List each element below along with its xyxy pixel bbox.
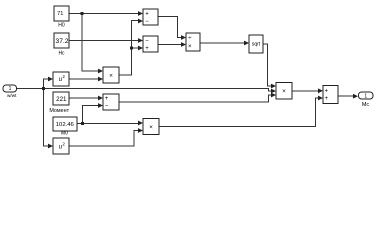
svg-text:×: × <box>188 43 192 50</box>
svg-text:1: 1 <box>9 86 12 92</box>
svg-text:u: u <box>59 77 62 83</box>
svg-text:H0: H0 <box>58 23 65 29</box>
svg-text:+: + <box>325 89 329 95</box>
svg-text:+: + <box>145 46 149 52</box>
svg-text:+: + <box>105 96 109 102</box>
svg-text:+: + <box>325 96 329 102</box>
svg-text:×: × <box>149 124 153 131</box>
svg-text:w/wt: w/wt <box>7 93 17 98</box>
svg-text:Mc: Mc <box>362 102 370 108</box>
svg-text:221: 221 <box>56 96 67 103</box>
svg-text:37.2: 37.2 <box>55 38 68 45</box>
svg-text:71: 71 <box>57 11 63 17</box>
svg-text:Hc: Hc <box>58 50 65 56</box>
svg-text:1: 1 <box>364 93 367 99</box>
svg-text:÷: ÷ <box>188 35 192 42</box>
svg-text:Момент: Момент <box>49 108 69 114</box>
svg-text:sqrt: sqrt <box>252 41 261 47</box>
svg-text:−: − <box>145 39 149 45</box>
svg-text:−: − <box>105 104 109 110</box>
svg-text:u: u <box>59 144 62 150</box>
svg-text:+: + <box>145 12 149 18</box>
svg-text:×: × <box>109 72 113 79</box>
svg-text:M0: M0 <box>61 131 68 137</box>
svg-text:×: × <box>282 88 286 95</box>
svg-text:102.46: 102.46 <box>56 122 75 128</box>
svg-text:−: − <box>145 19 149 25</box>
